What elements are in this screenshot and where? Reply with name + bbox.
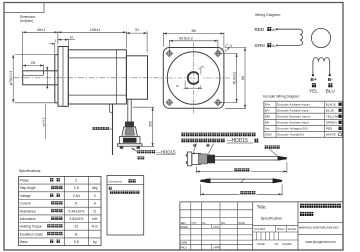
svg-text:PAGES: PAGES — [283, 242, 292, 246]
front pilot boss — [55, 55, 58, 103]
svg-text:Encoder Grand(0V): Encoder Grand(0V) — [277, 133, 304, 137]
cable2 right tip — [273, 178, 283, 183]
shaft keyway small dims — [198, 66, 202, 70]
front view center lines — [159, 77, 231, 79]
svg-text:GREEN: GREEN — [326, 121, 337, 125]
svg-text:Voltage: Voltage — [20, 194, 31, 198]
svg-text:Resistance: Resistance — [20, 209, 36, 213]
svg-text:69.6±0.2: 69.6±0.2 — [179, 36, 193, 40]
svg-text:REV: REV — [181, 222, 186, 225]
svg-text:φ4-8.5: φ4-8.5 — [41, 117, 45, 126]
svg-text:BLUE: BLUE — [326, 109, 334, 113]
svg-text:Title:: Title: — [257, 204, 267, 209]
shaft circle with keyway — [188, 72, 200, 84]
body silhouette corner lines — [68, 57, 126, 59]
front view flange square — [163, 48, 224, 109]
svg-text:31: 31 — [135, 28, 139, 32]
title block outline — [180, 201, 343, 203]
cable2 length dimension — [199, 185, 201, 196]
svg-text:Specifications:: Specifications: — [19, 169, 42, 173]
svg-text:155±1: 155±1 — [90, 28, 101, 32]
svg-text:Ω: Ω — [93, 209, 96, 213]
svg-text:mH: mH — [92, 217, 98, 221]
svg-text:PROJ: PROJ — [180, 247, 187, 250]
svg-text:25: 25 — [31, 61, 35, 65]
label motor cable (CJK) — [93, 127, 96, 130]
svg-text:PAGE: PAGE — [258, 242, 265, 246]
rear endbell joint — [116, 50, 118, 104]
cable1 length dimension — [195, 167, 197, 174]
svg-text:Holding Torque: Holding Torque — [20, 225, 42, 229]
svg-text:EB+: EB+ — [265, 115, 271, 119]
shaft — [23, 71, 58, 85]
note line 1 (CJK) — [181, 133, 185, 137]
label encoder connector HDD15 (CJK) — [132, 148, 137, 152]
motor body — [68, 50, 126, 104]
svg-text:12: 12 — [74, 225, 78, 229]
center line of side view — [13, 77, 158, 79]
comment text (CJK) — [109, 187, 112, 190]
svg-text:RED: RED — [255, 27, 265, 32]
svg-text:10: 10 — [70, 36, 74, 40]
svg-text:DATE: DATE — [238, 222, 245, 225]
svg-text:CHKR: CHKR — [180, 242, 187, 245]
dimension 40±1 — [22, 31, 24, 70]
svg-text:Specification: Specification — [261, 216, 283, 220]
cable1 leader arrows from note — [194, 144, 197, 152]
svg-text:5.6: 5.6 — [74, 240, 79, 244]
cable1 stripped tip — [278, 156, 287, 161]
svg-text:BLU: BLU — [326, 88, 335, 93]
svg-text:GND: GND — [265, 133, 273, 137]
spec table grid — [19, 176, 101, 245]
svg-text:B+: B+ — [310, 77, 316, 82]
pilot circle phi73 — [167, 52, 220, 105]
svg-text:SCALE: SCALE — [288, 227, 297, 231]
svg-text:WHITE: WHITE — [326, 133, 336, 137]
svg-text:www.jkongmotor.com: www.jkongmotor.com — [305, 240, 335, 244]
svg-text:Encoder B phase Input-: Encoder B phase Input- — [277, 121, 310, 125]
label multicore cable (CJK) — [265, 145, 268, 148]
svg-text:DRWN: DRWN — [180, 226, 188, 229]
svg-text:40±1: 40±1 — [37, 28, 45, 32]
dimension phi73 pilot — [12, 55, 14, 103]
svg-text:YELLOW: YELLOW — [326, 115, 339, 119]
svg-text:N.m: N.m — [92, 225, 98, 229]
phase B leads — [312, 62, 314, 76]
svg-text:A-: A- — [272, 43, 277, 48]
svg-text:Encoder A phase Input-: Encoder A phase Input- — [277, 109, 309, 113]
svg-text:No.: No. — [202, 222, 206, 225]
rear encoder cover — [126, 56, 147, 99]
HDD15 connector under motor — [125, 122, 134, 128]
svg-text:2: 2 — [75, 179, 77, 183]
svg-text:GRN: GRN — [255, 43, 265, 48]
comment box — [107, 175, 144, 235]
cable1 wire — [215, 156, 278, 158]
dimension shaft diameter — [46, 67, 48, 89]
dimension 86 top — [162, 32, 164, 46]
svg-text:69.6±0.2: 69.6±0.2 — [232, 71, 236, 84]
encoder table grid — [264, 101, 343, 137]
svg-text:B-: B- — [328, 77, 333, 82]
dimension 155±1 — [125, 31, 127, 48]
mounting holes — [168, 52, 172, 56]
leader root marks (CJK) — [193, 144, 196, 147]
svg-text:Encoder Wiring Diagram:: Encoder Wiring Diagram: — [263, 95, 300, 99]
svg-text:Wiring Diagram:: Wiring Diagram: — [255, 13, 281, 17]
svg-text:BLACK: BLACK — [326, 103, 337, 107]
dim text cable1 (CJK) — [234, 168, 237, 171]
dimension 25 (flat length) — [22, 64, 24, 69]
svg-text:YEL: YEL — [309, 88, 318, 93]
dimension 69.6±0.2 right — [221, 53, 238, 55]
svg-text:RED: RED — [326, 127, 333, 131]
dimension 1.7 (boss) — [54, 43, 56, 54]
svg-text:Step Angle: Step Angle — [20, 186, 36, 190]
phase A winding — [277, 29, 303, 45]
svg-text:86BHH115-650HTA85-A/BK1000: 86BHH115-650HTA85-A/BK1000 — [299, 226, 339, 230]
dimension 31 — [146, 31, 148, 52]
svg-text:—HDD15: —HDD15 — [156, 149, 176, 154]
label 4-phi6.5 holes — [218, 44, 228, 54]
motor lead cable — [112, 104, 114, 155]
dim text cable2 (CJK) — [240, 191, 243, 194]
svg-text:1.8: 1.8 — [74, 186, 79, 190]
company name (CJK) — [300, 204, 304, 208]
svg-text:SIG: SIG — [221, 222, 225, 225]
cable1 connector HDD15 side view — [188, 152, 192, 166]
svg-text:OF: OF — [275, 242, 279, 246]
svg-text:EA-: EA- — [265, 109, 270, 113]
cable2 wire — [206, 178, 277, 180]
svg-text:Encoder B phase Input+: Encoder B phase Input+ — [277, 115, 310, 119]
dimension 10 (flange thickness) — [67, 39, 69, 49]
svg-text:APPR: APPR — [213, 247, 220, 250]
cable2 left tip — [200, 178, 210, 183]
svg-text:EA+: EA+ — [265, 103, 271, 107]
front flange plate — [58, 47, 68, 107]
title strip box top-left — [4, 3, 44, 13]
dimension 86 right — [225, 47, 246, 49]
phase B winding — [313, 57, 330, 61]
note line 2 (CJK + HDD15) — [181, 139, 185, 143]
dimension 350 cable length — [133, 106, 155, 108]
svg-text:kg: kg — [93, 240, 97, 244]
svg-text:Insulation Class: Insulation Class — [20, 232, 44, 236]
svg-text:deg: deg — [92, 186, 98, 190]
encoder cable — [127, 99, 129, 121]
svg-text:3.8±20%: 3.8±20% — [69, 217, 84, 221]
dimension 69.6±0.2 top — [168, 40, 170, 51]
label 4-phi8.5 mounting holes — [44, 104, 46, 139]
revision grid — [180, 209, 253, 211]
svg-text:86: 86 — [241, 76, 245, 80]
svg-text:Phase: Phase — [20, 179, 30, 183]
svg-text:Vcc: Vcc — [265, 127, 271, 131]
svg-text:WGHT: WGHT — [277, 227, 285, 231]
svg-text:CLS.MAT: CLS.MAT — [254, 227, 265, 231]
svg-text:Encoder A phase Input+: Encoder A phase Input+ — [277, 103, 310, 107]
svg-text:6: 6 — [75, 202, 77, 206]
svg-text:350: 350 — [149, 121, 153, 127]
cable2 break mark — [241, 179, 245, 183]
shaft keyway flat — [23, 74, 44, 76]
svg-text:2.64: 2.64 — [73, 194, 80, 198]
svg-text:Comment: Comment — [108, 179, 122, 183]
svg-text:86: 86 — [191, 29, 195, 33]
svg-text:Mass: Mass — [20, 240, 28, 244]
motor rotor circle — [311, 28, 330, 47]
svg-text:Inductance: Inductance — [20, 217, 36, 221]
flange mid line — [62, 47, 64, 107]
svg-text:EB-: EB- — [265, 121, 270, 125]
svg-text:Encoder Voltage(+5V): Encoder Voltage(+5V) — [277, 127, 307, 131]
svg-text:1.7: 1.7 — [54, 39, 59, 43]
svg-text:CKD.: CKD. — [213, 226, 219, 229]
svg-text:Current: Current — [20, 202, 31, 206]
label (CJK) second row — [138, 156, 141, 159]
svg-text:φ73±0.03: φ73±0.03 — [9, 71, 13, 86]
svg-text:QTY: QTY — [192, 222, 197, 225]
svg-text:Unit(mm): Unit(mm) — [20, 19, 33, 23]
svg-text:0.44±10%: 0.44±10% — [68, 209, 85, 213]
